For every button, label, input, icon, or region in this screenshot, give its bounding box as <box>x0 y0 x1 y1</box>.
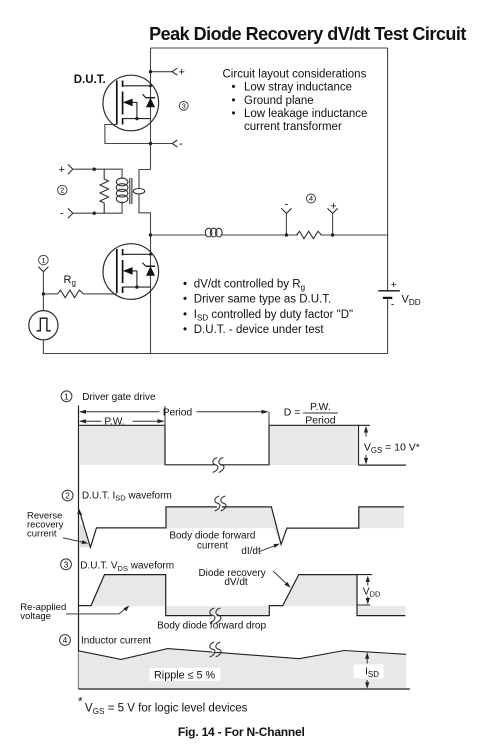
Q1 drain lead <box>123 85 151 87</box>
svg-text:Peak Diode Recovery dV/dt Test: Peak Diode Recovery dV/dt Test Circuit <box>149 24 466 44</box>
svg-text:dV/dt: dV/dt <box>224 577 248 588</box>
svg-text:-: - <box>179 138 183 150</box>
gray band below zero 2 <box>357 606 405 615</box>
dimension line P.W. <box>80 420 164 422</box>
svg-text:2: 2 <box>65 491 70 501</box>
wire main vertical through driver <box>150 235 152 354</box>
terminal chevron node4 minus <box>281 208 291 213</box>
waveform 2 trace <box>79 507 404 547</box>
svg-text:+: + <box>59 164 65 176</box>
node 4 circled <box>307 194 316 203</box>
svg-text:Inductor current: Inductor current <box>81 636 151 647</box>
CIRCUIT-SECTION <box>43 48 387 354</box>
break symbol waveform 4 <box>210 642 221 657</box>
node 4 circled waveform <box>60 635 71 646</box>
gray band below zero 1 <box>166 606 270 615</box>
svg-text:•: • <box>232 95 236 107</box>
transformer T1 core <box>130 178 132 204</box>
terminal chevron node4 plus <box>328 208 338 213</box>
terminal chevron D.U.T. plus <box>172 68 177 75</box>
battery VDD <box>378 290 400 292</box>
svg-text:current: current <box>197 541 228 552</box>
wire jog out of transformer secondary bottom <box>139 194 151 235</box>
dimension line Period <box>80 411 268 413</box>
VDD dimension arrows <box>367 578 369 586</box>
svg-text:Driver same type as D.U.T.: Driver same type as D.U.T. <box>194 294 331 306</box>
svg-text:+: + <box>330 201 336 213</box>
leader diode recovery <box>273 571 288 585</box>
svg-text:•: • <box>183 324 187 336</box>
Q1 channel dashes <box>122 81 124 125</box>
svg-text:-: - <box>285 199 289 211</box>
gray fill pulse 1 <box>79 425 165 465</box>
svg-text:3: 3 <box>182 101 186 110</box>
svg-text:D.U.T. ISD waveform: D.U.T. ISD waveform <box>82 490 172 502</box>
break symbol waveform 3 <box>210 608 221 623</box>
wire D.U.T. plus terminal branch <box>151 71 173 73</box>
svg-text:+: + <box>179 67 185 79</box>
wire bottom rail <box>43 353 387 355</box>
transformer T1 secondary single-turn winding <box>133 189 144 194</box>
svg-text:voltage: voltage <box>20 611 51 622</box>
node 3 circled <box>179 101 188 110</box>
leader re-applied voltage <box>66 608 127 614</box>
Q1 source lead <box>123 118 151 120</box>
svg-text:VGS = 5 V for logic level devi: VGS = 5 V for logic level devices <box>85 702 248 716</box>
note dV/dt bullets <box>183 278 353 336</box>
wire right vertical lower <box>387 298 389 354</box>
svg-text:dV/dt controlled by Rg: dV/dt controlled by Rg <box>194 278 305 292</box>
terminal chevron D.U.T. minus <box>172 140 177 147</box>
svg-text:Period: Period <box>305 414 336 426</box>
gray wedge dIdt spike <box>274 528 281 544</box>
Q2 gate bar <box>116 249 118 293</box>
svg-text:-: - <box>60 208 64 220</box>
inductor L1 <box>205 228 222 237</box>
svg-text:•: • <box>183 278 187 290</box>
waveform 4 baseline <box>79 688 411 690</box>
mosfet Q2 driver <box>103 244 159 300</box>
svg-text:1: 1 <box>41 256 45 265</box>
note circuit layout considerations <box>223 68 368 133</box>
wire transformer primary top <box>73 169 122 179</box>
Q2 body arrow <box>132 271 137 287</box>
svg-text:D.U.T.: D.U.T. <box>74 72 106 86</box>
node 2 circled waveform <box>62 490 73 501</box>
wire top rail <box>151 47 388 49</box>
svg-text:D.U.T. - device under test: D.U.T. - device under test <box>194 324 325 336</box>
Q2 drain lead <box>123 253 151 255</box>
svg-text:current transformer: current transformer <box>244 121 342 133</box>
gray fill body diode plateau <box>166 507 277 528</box>
label reverse recovery current <box>27 510 64 539</box>
break symbol waveform 1 <box>213 458 224 473</box>
svg-text:Ground plane: Ground plane <box>244 95 314 107</box>
gray fill pulse 2 <box>269 425 357 465</box>
svg-text:Low leakage inductance: Low leakage inductance <box>244 108 367 120</box>
transformer T1 primary winding <box>116 178 128 203</box>
wire Rg to driver gate <box>83 293 116 295</box>
waveform 1 trace <box>79 425 371 465</box>
Q1 body circle <box>103 75 159 131</box>
svg-text:•: • <box>183 309 187 321</box>
wire main vertical through D.U.T. <box>150 48 152 170</box>
break symbol waveform 2 <box>215 496 226 511</box>
gray fill VDS block 2 <box>283 575 357 607</box>
waveform 1 right bracket edge <box>359 425 407 465</box>
junction dots <box>42 70 335 296</box>
wire pulse generator to bottom rail <box>42 340 44 354</box>
wire right vertical upper <box>387 48 389 291</box>
falling edge dimension extension <box>164 406 166 425</box>
resistor Rg <box>58 290 84 298</box>
wire middle rail left of inductor <box>151 234 206 236</box>
terminal chevron gate drive <box>38 267 48 272</box>
svg-text:+: + <box>391 279 397 291</box>
ISD dimension arrows <box>366 655 368 664</box>
waveform axis vertical <box>78 406 80 690</box>
wire plus terminal stub at node 4 <box>332 213 334 235</box>
resistor R (middle rail) <box>297 231 322 238</box>
svg-text:dI/dt: dI/dt <box>241 546 261 557</box>
svg-text:Fig. 14 - For N-Channel: Fig. 14 - For N-Channel <box>178 725 305 739</box>
wire pulse generator branch <box>42 272 44 311</box>
Q2 channel dashes <box>122 249 124 293</box>
svg-text:•: • <box>232 108 236 120</box>
terminal chevron transformer plus <box>68 164 73 174</box>
svg-text:D.U.T. VDS waveform: D.U.T. VDS waveform <box>80 561 174 573</box>
svg-text:1: 1 <box>64 391 69 401</box>
pulse generator V1 <box>29 311 58 340</box>
svg-text:4: 4 <box>63 635 68 645</box>
gray wedge reverse recovery spike <box>79 525 90 548</box>
gray fill inductor current <box>79 649 407 689</box>
svg-text:Low stray inductance: Low stray inductance <box>244 82 352 94</box>
Q1 body diode <box>146 98 155 108</box>
svg-text:•: • <box>183 294 187 306</box>
wire D.U.T. gate-to-source loop <box>105 125 151 144</box>
Q2 body diode <box>146 266 155 276</box>
wire minus terminal stub at node 4 <box>285 213 287 235</box>
svg-text:P.W.: P.W. <box>104 417 124 428</box>
svg-text:*: * <box>78 697 83 709</box>
svg-text:•: • <box>232 82 236 94</box>
start arrowhead waveform 2 <box>77 509 82 515</box>
svg-text:Driver gate drive: Driver gate drive <box>82 392 156 403</box>
svg-text:ISD controlled by duty factor: ISD controlled by duty factor "D" <box>194 309 353 323</box>
leader dI/dt <box>260 545 277 552</box>
wire jog into transformer secondary top <box>139 170 151 189</box>
waveform 4 trace <box>79 649 407 660</box>
svg-text:Body diode forward drop: Body diode forward drop <box>157 620 266 631</box>
mosfet Q1 D.U.T. <box>103 75 159 131</box>
node 1 circled waveform <box>61 391 72 402</box>
terminal chevron transformer minus <box>68 208 73 218</box>
svg-text:3: 3 <box>64 559 69 569</box>
node 3 circled waveform <box>61 559 72 570</box>
rising edge dimension extension <box>268 412 270 426</box>
wire D.U.T. minus terminal branch <box>151 143 173 145</box>
svg-text:P.W.: P.W. <box>310 401 331 413</box>
svg-text:Period: Period <box>163 407 193 418</box>
svg-text:-: - <box>391 298 395 310</box>
wire gate drive to Rg <box>43 293 57 295</box>
Q1 body arrow <box>132 102 137 118</box>
svg-text:Circuit layout considerations: Circuit layout considerations <box>223 68 367 80</box>
svg-text:4: 4 <box>309 194 313 203</box>
svg-text:current: current <box>27 528 57 539</box>
label ISD waveform4 <box>354 665 384 679</box>
svg-text:D =: D = <box>284 407 301 419</box>
leader reverse recovery <box>63 538 85 543</box>
node 1 circled <box>39 255 49 265</box>
Q1 gate bar <box>116 80 118 124</box>
wire middle rail inductor to resistor <box>222 234 298 236</box>
label ripple <box>150 668 221 681</box>
wire middle rail resistor to right <box>321 234 388 236</box>
Q2 source lead <box>123 286 151 288</box>
wire transformer primary bottom <box>73 202 122 214</box>
waveform 3 trace <box>79 575 406 616</box>
node 2 circled <box>58 185 67 194</box>
Q2 body circle <box>103 244 159 300</box>
gray fill VDS block 1 <box>91 575 166 607</box>
svg-text:Ripple ≤ 5 %: Ripple ≤ 5 % <box>154 669 216 681</box>
svg-text:2: 2 <box>60 186 64 195</box>
VDD bracket stubs <box>357 575 372 605</box>
resistor burden (transformer) <box>100 169 109 213</box>
VGS dimension arrows <box>365 428 367 437</box>
gray fill right plateau <box>359 507 404 528</box>
